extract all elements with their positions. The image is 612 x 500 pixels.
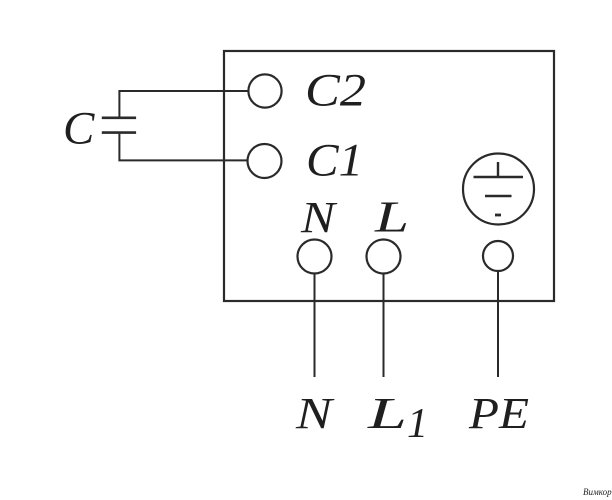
label C2 [305,65,366,117]
terminal PE [483,241,513,271]
svg-text:PE: PE [468,389,529,438]
wire L1 down [383,274,385,378]
svg-text:L: L [366,389,407,438]
watermark [583,487,612,497]
svg-text:N: N [295,389,335,438]
svg-text:C1: C1 [306,135,363,187]
capacitor C plates [102,118,136,133]
label C1 [306,135,363,187]
svg-text:C: C [63,103,95,155]
terminal L [367,240,401,274]
label N (terminal) [300,193,338,242]
label L (terminal) [374,193,409,242]
wire capacitor bottom to terminal C1 [119,134,247,161]
wire N down [314,274,316,378]
earth symbol outer circle [463,154,534,225]
wire PE down [497,271,499,377]
wire capacitor top to terminal C2 [119,91,248,117]
terminal C1 [248,144,282,178]
earth symbol strokes [474,162,524,215]
svg-text:L: L [374,193,409,242]
svg-text:N: N [300,193,338,242]
terminal N [298,240,332,274]
svg-text:C2: C2 [305,65,366,117]
terminal C2 [248,74,281,107]
svg-text:Вимкор: Вимкор [583,487,612,497]
svg-text:1: 1 [407,401,428,447]
label L1 (net, bottom) [366,389,428,447]
label PE (net, bottom) [468,389,529,438]
label C (capacitor value) [63,103,95,155]
terminal box outline [224,51,554,301]
label N (net, bottom) [295,389,335,438]
